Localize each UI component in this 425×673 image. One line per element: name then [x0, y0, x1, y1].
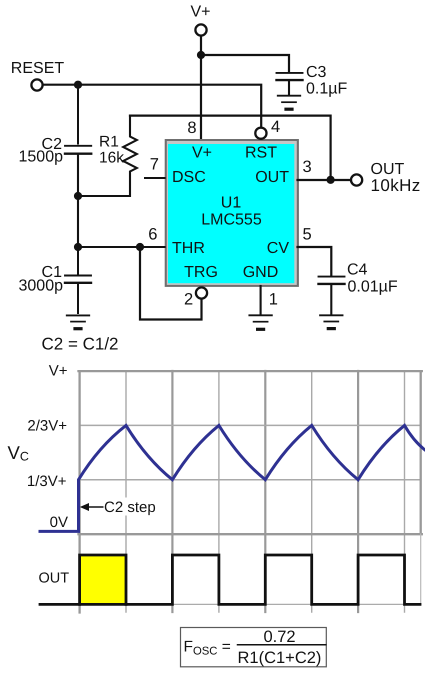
ground C3: [278, 96, 300, 110]
svg-text:V+: V+: [49, 363, 68, 380]
svg-text:LMC555: LMC555: [201, 212, 262, 229]
svg-text:4: 4: [271, 118, 280, 136]
IC U1 body: [168, 144, 294, 283]
terminal OUT: [351, 174, 362, 185]
svg-text:6: 6: [148, 226, 157, 244]
pin 4 terminal: [255, 128, 266, 139]
svg-text:0.01µF: 0.01µF: [348, 279, 398, 296]
svg-text:1/3V+: 1/3V+: [27, 473, 67, 490]
graph grid 2/3 level line: [80, 424, 421, 426]
pin 6 wire: [78, 246, 165, 248]
pin 2 terminal: [196, 287, 207, 298]
capacitor C1: [65, 276, 91, 283]
svg-text:THR: THR: [172, 240, 205, 257]
wire TRG loop: [140, 247, 202, 320]
svg-text:7: 7: [150, 155, 159, 173]
terminal RESET: [31, 79, 42, 90]
svg-text:0.72: 0.72: [263, 628, 295, 646]
wire junction to C2: [77, 84, 79, 144]
graph right border lower faint: [420, 534, 422, 603]
waveform VC: [40, 425, 425, 531]
junction THR/TRG: [136, 243, 144, 251]
wire R1 top to OUT node: [130, 116, 331, 180]
svg-text:2: 2: [184, 290, 193, 308]
pin 5 wire: [298, 247, 332, 276]
terminal V+: [195, 24, 206, 35]
junction RESET/C2: [74, 81, 82, 89]
capacitor C4: [319, 277, 345, 314]
svg-text:3000p: 3000p: [19, 278, 64, 295]
svg-text:0V: 0V: [50, 514, 68, 531]
junction OUT: [327, 176, 335, 184]
waveform OUT: [40, 555, 420, 604]
svg-text:R1: R1: [99, 134, 119, 151]
wire C1 to ground: [77, 285, 79, 314]
svg-text:GND: GND: [243, 264, 279, 281]
graph border: [79, 371, 422, 612]
svg-text:8: 8: [187, 119, 196, 137]
svg-text:C4: C4: [347, 262, 368, 279]
formula fraction bar: [238, 644, 326, 646]
svg-text:0.1µF: 0.1µF: [306, 81, 347, 98]
waveform OUT yellow fill: [80, 555, 126, 604]
wire junction to C1: [77, 247, 79, 274]
junction V+: [197, 51, 205, 59]
svg-text:V+: V+: [192, 145, 212, 162]
pin 1 wire: [260, 286, 262, 314]
svg-text:3: 3: [303, 158, 312, 176]
capacitor C3: [277, 73, 303, 95]
annotation C2 step text: [104, 498, 160, 517]
svg-text:16k: 16k: [99, 150, 124, 167]
wire C2 to junction: [77, 155, 79, 247]
svg-text:RESET: RESET: [11, 60, 65, 77]
svg-text:5: 5: [303, 226, 312, 244]
svg-text:V+: V+: [190, 4, 210, 21]
pin 7 stub: [145, 177, 165, 179]
svg-text:DSC: DSC: [172, 169, 206, 186]
svg-text:1500p: 1500p: [19, 149, 64, 166]
graph grid 1/3 level line: [80, 479, 421, 481]
svg-text:1: 1: [269, 291, 278, 309]
graph grid major verticals: [172, 371, 358, 612]
svg-text:10kHz: 10kHz: [371, 176, 421, 195]
ground C1: [67, 315, 89, 328]
OUT baseline gridline: [80, 603, 421, 605]
svg-text:VC: VC: [8, 442, 29, 464]
resistor R1: [123, 116, 137, 196]
svg-text:C2 step: C2 step: [104, 499, 156, 516]
formula box: [181, 628, 327, 667]
junction C2/R1: [74, 192, 82, 200]
svg-text:C2 = C1/2: C2 = C1/2: [42, 335, 119, 354]
pin 3 wire: [298, 179, 352, 181]
wire junction to R1: [78, 195, 130, 197]
graph grid minor verticals: [126, 371, 405, 612]
capacitor C2: [65, 146, 91, 154]
svg-text:OUT: OUT: [255, 169, 289, 186]
svg-text:2/3V+: 2/3V+: [27, 418, 67, 435]
IC U1 outer border: [165, 139, 299, 287]
svg-text:CV: CV: [267, 240, 290, 257]
svg-text:C3: C3: [306, 64, 327, 81]
ground C4: [320, 315, 342, 328]
wire RESET to pin 4: [43, 85, 261, 127]
junction C1: [74, 243, 82, 251]
yellow cell bottom border: [80, 603, 126, 606]
svg-text:R1(C1+C2): R1(C1+C2): [238, 649, 322, 667]
svg-text:TRG: TRG: [184, 264, 218, 281]
svg-text:RST: RST: [245, 145, 277, 162]
wire V+ to C3: [201, 55, 289, 72]
annotation C2 step arrow: [80, 503, 103, 511]
ground pin 1: [249, 315, 271, 329]
svg-text:U1: U1: [221, 195, 242, 212]
wire V+ to pin 8: [200, 36, 202, 139]
svg-text:OUT: OUT: [39, 570, 70, 586]
